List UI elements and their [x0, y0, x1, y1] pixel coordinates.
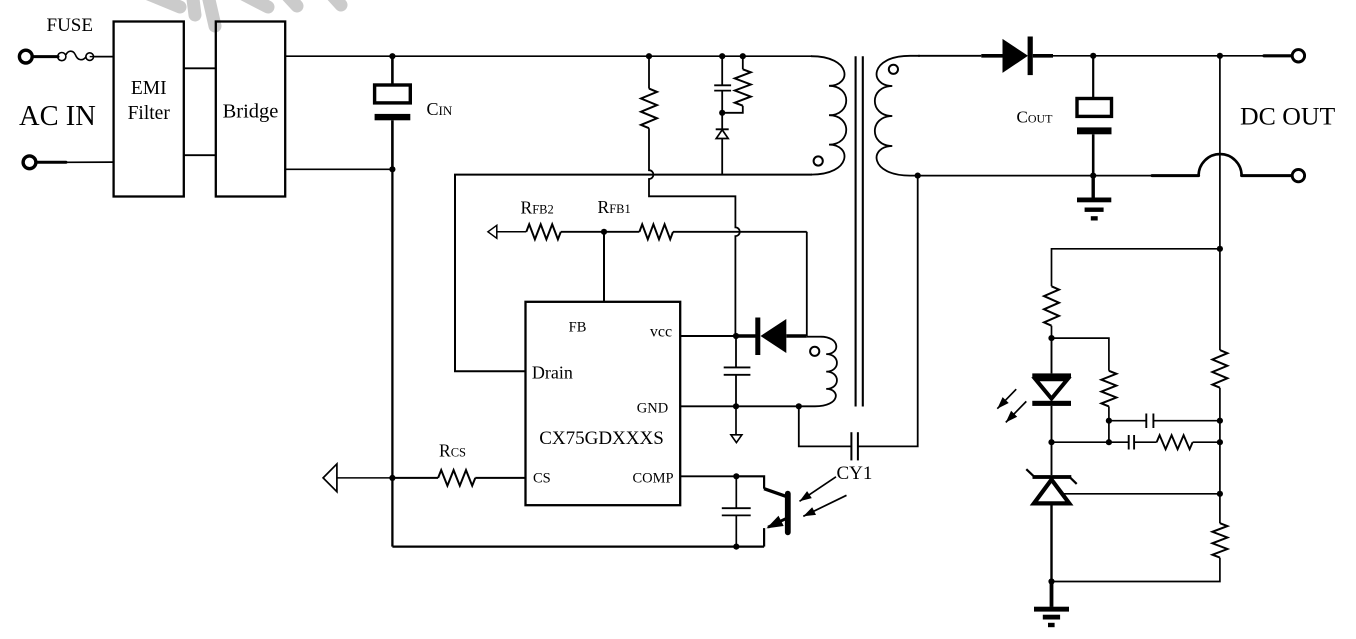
transformer core [855, 56, 857, 406]
DC output terminal (-) [1292, 169, 1304, 181]
resistor RFB1 [639, 224, 673, 239]
wire [1220, 55, 1264, 57]
wire [1152, 174, 1199, 177]
wire [455, 175, 812, 372]
svg-text:RFB2: RFB2 [521, 198, 554, 218]
svg-text:CIN: CIN [427, 99, 453, 119]
wire [475, 477, 525, 479]
svg-text:Bridge: Bridge [223, 101, 279, 123]
wire [680, 475, 736, 477]
led bias resistor [1044, 286, 1059, 325]
node [1217, 53, 1223, 59]
svg-text:Drain: Drain [532, 363, 573, 383]
wire [1052, 338, 1109, 371]
node [1090, 173, 1096, 179]
reference wire [1064, 493, 1220, 495]
node [915, 173, 921, 179]
node [601, 229, 607, 235]
node [1106, 439, 1112, 445]
node [1106, 418, 1112, 424]
capacitor CY1 [850, 432, 852, 460]
wire [1052, 558, 1220, 582]
auxiliary winding [799, 337, 837, 407]
wire [680, 335, 736, 337]
net arrow (FB return) [488, 225, 497, 238]
wire [1052, 441, 1109, 443]
secondary phase dot [889, 65, 898, 74]
svg-text:FUSE: FUSE [47, 15, 93, 36]
wire [918, 175, 1093, 177]
svg-text:Filter: Filter [128, 103, 171, 124]
svg-text:FB: FB [569, 320, 587, 336]
resistor RFB2 [526, 224, 561, 239]
wire [806, 232, 808, 336]
node [1090, 53, 1096, 59]
aux phase dot [810, 347, 819, 356]
upper divider resistor [1212, 350, 1227, 388]
lower divider resistor [1212, 523, 1227, 557]
wire [561, 231, 604, 233]
wire [858, 176, 918, 447]
node [719, 53, 725, 59]
node [646, 53, 652, 59]
wire [37, 161, 66, 164]
clamp capacitor [721, 56, 723, 85]
node [1048, 578, 1054, 584]
wire [1093, 55, 1220, 57]
svg-text:COUT: COUT [1017, 108, 1054, 127]
wire [1108, 421, 1110, 443]
node [796, 403, 802, 409]
primary phase dot [814, 156, 823, 165]
RC branch capacitor [1128, 435, 1130, 450]
svg-text:AC IN: AC IN [19, 101, 96, 132]
node [733, 333, 739, 339]
svg-text:COMP: COMP [632, 471, 673, 487]
optocoupler light arrows [800, 477, 837, 502]
node [1217, 491, 1223, 497]
svg-text:CX75GDXXXS: CX75GDXXXS [539, 428, 664, 449]
wire [1051, 326, 1053, 338]
wire [735, 406, 737, 435]
wire [1242, 174, 1291, 177]
net arrow (CS return) [323, 464, 337, 492]
svg-text:vcc: vcc [650, 324, 672, 341]
AC input terminal (line) [19, 50, 32, 63]
startup resistor [648, 56, 650, 88]
watermark (decorative) [146, 0, 341, 26]
wire [184, 154, 216, 156]
wire [604, 231, 639, 233]
AC input terminal (neutral) [23, 156, 36, 169]
wire [391, 169, 393, 546]
capacitor COUT [1092, 56, 1094, 99]
capacitor CIN [391, 56, 394, 85]
wire [736, 476, 764, 488]
wire [680, 405, 799, 407]
wire [1051, 338, 1053, 373]
clamp diode [721, 113, 723, 130]
svg-text:CS: CS [533, 471, 551, 487]
wire hop over DC feedback rail [1199, 154, 1242, 176]
op-amp U1 CX75GDXXXS [526, 302, 681, 505]
wire [1093, 175, 1152, 177]
node [733, 544, 739, 550]
vcc capacitor [735, 336, 737, 367]
node [733, 403, 739, 409]
node [719, 110, 725, 116]
ground (secondary) [1091, 176, 1094, 198]
compensation capacitor [1145, 414, 1147, 429]
node [1048, 439, 1054, 445]
node [389, 166, 395, 172]
transformer primary winding [811, 56, 846, 174]
wire [1219, 56, 1221, 249]
node [1217, 439, 1223, 445]
fuse F1 [58, 53, 66, 61]
output diode D1 [981, 54, 1003, 58]
wire [1134, 441, 1157, 443]
resistor RCS [438, 470, 475, 486]
wire [807, 336, 821, 338]
LED light arrows [997, 389, 1016, 409]
wire [285, 55, 392, 57]
phototransistor Q1 [764, 489, 785, 497]
compensation resistor [1101, 371, 1116, 407]
clamp resistor [742, 56, 744, 69]
node [733, 473, 739, 479]
comp capacitor [735, 476, 737, 508]
node [389, 475, 395, 481]
wire [918, 55, 981, 57]
svg-text:CY1: CY1 [837, 463, 873, 484]
node [1048, 335, 1054, 341]
svg-text:GND: GND [637, 401, 668, 417]
wire [1108, 406, 1110, 420]
wire [392, 477, 438, 479]
wire [34, 55, 59, 58]
wire [799, 406, 852, 446]
wire [1053, 55, 1093, 57]
wire [1193, 441, 1220, 443]
wire [392, 55, 812, 57]
wire [1219, 388, 1221, 524]
wire [673, 231, 807, 233]
optocoupler LED [1032, 373, 1071, 377]
wire [1153, 420, 1220, 422]
wire [1219, 249, 1221, 350]
vcc rectifier diode [736, 334, 756, 337]
svg-text:DC OUT: DC OUT [1240, 102, 1336, 131]
ground (feedback) [1050, 582, 1054, 607]
RC branch resistor [1157, 435, 1193, 449]
wire [285, 168, 392, 170]
EMI filter block [114, 22, 184, 197]
wire [1264, 54, 1291, 57]
svg-text:RFB1: RFB1 [598, 197, 631, 217]
wire [1109, 420, 1146, 422]
wire [93, 56, 113, 58]
wire [392, 545, 764, 547]
node [1217, 246, 1223, 252]
DC output terminal (+) [1292, 50, 1304, 62]
node [1217, 418, 1223, 424]
bridge rectifier block [216, 22, 285, 197]
svg-text:EMI: EMI [131, 78, 167, 99]
ground arrow (primary) [731, 435, 742, 443]
transformer secondary winding [875, 56, 920, 176]
wire [603, 232, 605, 302]
node [740, 53, 746, 59]
wire [497, 231, 527, 233]
wire [184, 67, 216, 69]
wire [337, 477, 393, 479]
svg-text:RCS: RCS [439, 441, 466, 461]
node [389, 53, 395, 59]
shunt regulator TL431 [1051, 442, 1053, 475]
wire [1052, 249, 1220, 286]
